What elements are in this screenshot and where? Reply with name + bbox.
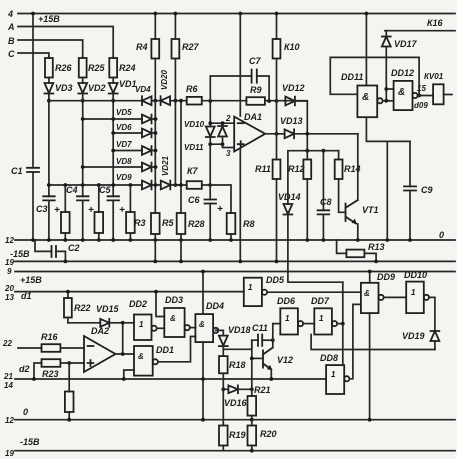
wire DD8 out riser to DD9 [349,304,361,378]
junction -15V R11 [275,260,279,264]
junction caps rail C5 [111,183,115,187]
wire collector column R4-R5 [154,101,156,213]
svg-text:0: 0 [439,230,444,240]
junction 0 rail VT1 emitter [356,238,360,242]
svg-text:VD14: VD14 [278,192,301,202]
wire R27 column to R7 node [174,101,176,185]
junction VD8 row B [81,165,85,169]
svg-text:3: 3 [226,149,231,158]
net K16 line [385,30,455,32]
wire DA1 neg supply [239,149,241,261]
svg-text:R9: R9 [250,85,262,95]
capacitor C6 electrolytic [205,185,217,240]
svg-text:1: 1 [248,283,253,292]
junction 0 rail dots caps area [47,238,233,242]
wire top rail to DD11 [365,14,367,86]
svg-text:C4: C4 [66,185,78,195]
junction -15V rail C2 [64,260,68,264]
diode VD11 [218,123,227,144]
gate DD7 [314,308,337,334]
wire VD19 return to DD7 [311,335,435,350]
svg-text:19: 19 [5,258,14,267]
gate DD12 [394,81,418,110]
resistor R5 [151,213,160,240]
svg-text:+15В: +15В [20,275,42,285]
junction bleed1 top [63,183,67,187]
junction x155 VD7 [154,149,158,153]
resistor R28 [177,101,186,240]
junction d2 rail R23 [32,377,36,381]
junction +15V rail DD4 [201,270,205,274]
junction DA1 out node [275,132,279,136]
svg-text:C6: C6 [188,195,200,205]
svg-text:20: 20 [4,284,14,293]
junction caps rail C3 [47,183,51,187]
diode VD12 [285,97,295,106]
svg-text:R23: R23 [42,369,59,379]
svg-text:2: 2 [225,114,231,123]
junction 0 rail DD9 [368,418,372,422]
wire VD9 caps rail [48,184,178,186]
svg-text:DD12: DD12 [391,68,414,78]
svg-text:DA1: DA1 [244,112,262,122]
wire DA1 plus input row [210,144,234,147]
junction R3 top [129,183,133,187]
diode VD21 [161,181,171,190]
resistor R27 [172,14,180,101]
svg-text:&: & [170,314,176,323]
junction top rail x240 [238,12,242,16]
junction VD17 node [384,99,388,103]
diode VD18 [216,330,228,356]
svg-text:C11: C11 [252,323,268,333]
svg-text:VD16: VD16 [224,398,248,408]
svg-text:VD3: VD3 [55,83,73,93]
op-amp DA2 [84,336,116,372]
svg-text:C5: C5 [99,185,111,195]
junction row x175.4 [174,99,178,103]
capacitor C7 [252,70,270,102]
diode VD19 [429,297,439,349]
svg-text:R11: R11 [255,164,271,174]
diode VD15 [68,319,123,327]
junction -15V R28 [179,260,183,264]
capacitor C8 [318,151,330,240]
junction -15V R5 [153,260,157,264]
wire DD4 bottom to 0 rail [202,342,204,420]
svg-text:DD5: DD5 [266,275,285,285]
wire VD7 row [113,150,142,152]
svg-text:C2: C2 [68,243,80,253]
wire DD5 out to DD9 [267,291,361,293]
svg-text:&: & [364,289,370,298]
junction VD5 row B [81,117,85,121]
svg-text:VD2: VD2 [88,83,106,93]
junction -15V DA1 [238,260,242,264]
svg-text:C7: C7 [249,56,261,66]
svg-text:VD19: VD19 [402,331,425,341]
junction +15V rail DD9 [368,270,372,274]
resistor R19 [219,389,228,450]
diode VD16 [223,385,252,393]
svg-text:К7: К7 [187,166,199,176]
junction DD12 out [417,94,421,98]
resistor R14 [335,151,346,213]
svg-text:C8: C8 [320,197,332,207]
svg-text:R6: R6 [186,84,198,94]
wire R23 to DA2 plus [69,362,84,364]
resistor R4 [151,14,159,101]
wire DD1 lower input [124,370,134,379]
svg-text:DD11: DD11 [341,72,363,82]
svg-text:DD8: DD8 [320,353,338,363]
gate DD10 [406,282,429,314]
svg-text:R12: R12 [288,164,305,174]
junction R7 right node [208,183,212,187]
junction caps rail C4 [81,183,85,187]
gate DD5 [244,278,267,306]
svg-text:R5: R5 [162,218,174,228]
junction base node [250,357,254,361]
wire VD8 row [83,166,142,168]
wire R5 column to -15V [154,240,156,261]
svg-text:19: 19 [5,449,14,458]
svg-text:14: 14 [4,381,13,390]
junction 0 rail R12 [305,238,309,242]
svg-text:R21: R21 [254,385,271,395]
svg-text:DD9: DD9 [377,272,395,282]
wire phase column C down [48,101,50,185]
svg-text:A: A [7,22,15,32]
svg-text:4: 4 [7,9,13,19]
diode VD1 [109,83,118,101]
svg-text:VD21: VD21 [161,155,170,176]
transistor VT1 [346,134,358,240]
svg-text:DD3: DD3 [165,295,183,305]
svg-text:C3: C3 [36,204,48,214]
net -15V rail (pin 19) [15,260,455,262]
wire VD12 to VD13 node [295,101,307,151]
junction top rail x366 [365,12,369,16]
svg-text:C1: C1 [11,166,23,176]
wire d1 to DD3 [156,292,164,317]
resistor R10 [273,14,281,102]
svg-text:1: 1 [139,320,144,329]
wire phase column B down [82,101,84,185]
svg-text:VD10: VD10 [184,120,205,129]
resistor R16 [42,344,85,352]
junction 0 rail C8 [322,238,326,242]
junction 0 rail C6 [208,238,212,242]
svg-text:R16: R16 [41,332,59,342]
junction VD11 top [221,121,225,125]
diode VD20 [161,96,171,105]
svg-text:К10: К10 [284,42,300,52]
junction VD5 row A [111,117,115,121]
svg-text:&: & [138,352,144,361]
junction plus row [208,142,212,146]
wire DD9 out to DD10 [384,296,407,298]
wire feedback top y76 [210,76,251,101]
svg-text:VD17: VD17 [394,39,418,49]
diode VD9 [142,181,152,190]
gate DD3 [164,308,189,337]
junction d1 rail DD3 [154,290,158,294]
junction x386 y89 [384,87,388,91]
transistor VT2 [252,340,273,379]
capacitor C11 [223,335,272,350]
svg-text:VT1: VT1 [362,205,379,215]
junction VD15 DD2 node [121,321,125,325]
wire +15V to DD4 top [202,272,204,315]
svg-text:R26: R26 [55,63,73,73]
wire VD13 to VT1 collector [294,133,358,135]
svg-text:VD18: VD18 [228,325,251,335]
svg-text:DD4: DD4 [206,301,224,311]
wire DA1 minus input row [210,122,234,124]
junction VD13 node [305,132,309,136]
svg-text:VD5: VD5 [116,108,132,117]
svg-text:DD7: DD7 [311,296,330,306]
junction DA2 out [121,352,125,356]
gate DD4 [195,314,218,342]
svg-text:R22: R22 [74,303,91,313]
junction x155 VD8 [154,165,158,169]
svg-text:R13: R13 [368,242,385,252]
wire DD6 input riser [273,324,281,341]
junction 0 rail R17 [67,418,71,422]
wire DD6 out to DD7 [303,323,314,325]
diode VD10 [206,101,215,144]
wire DA1 supply stub [239,14,241,117]
svg-text:DD2: DD2 [129,299,147,309]
junction DD7 riser [341,322,345,326]
svg-text:R3: R3 [134,218,146,228]
wire phase column A down [112,101,114,185]
gate DD11 [357,86,382,118]
junction 0 rail x203 [201,418,205,422]
svg-text:VD4: VD4 [135,85,151,94]
svg-text:R4: R4 [136,42,148,52]
net 0 rail bottom (pin 12) [15,419,455,421]
svg-text:R8: R8 [243,219,255,229]
svg-text:d2: d2 [19,364,30,374]
svg-text:R27: R27 [182,42,200,52]
wire +15V to DD9 top [369,272,371,283]
capacitor C3 electrolytic [43,185,55,240]
svg-text:12: 12 [5,416,14,425]
svg-text:B: B [8,36,15,46]
svg-text:VD20: VD20 [160,69,169,90]
junction R28 top [179,183,183,187]
gate DD1 [134,346,158,376]
gate DD9 [361,283,384,313]
junction 0 rail C9 [408,238,412,242]
junction C11 node [271,338,275,342]
resistor R9 [246,97,265,105]
phase C line [18,53,49,57]
svg-text:+: + [217,204,223,215]
svg-text:R19: R19 [229,430,246,440]
capacitor C4 electrolytic [77,185,89,240]
diode VD5 [142,115,156,124]
resistor R18 [219,356,228,389]
resistor R13 [337,240,377,261]
wire DA1 output [265,133,284,135]
junction minus row [208,121,212,125]
junction VD16 right R21 [250,387,254,391]
resistor R7 [178,181,210,189]
svg-text:21: 21 [3,372,13,381]
resistor R6 [187,97,202,105]
wire connector stub [444,94,452,96]
junction R9 right [267,99,271,103]
resistor R3 [126,185,135,240]
resistor R22 [64,292,72,323]
svg-text:0: 0 [23,407,28,417]
svg-text:DD10: DD10 [404,270,427,280]
svg-text:1: 1 [411,288,416,297]
wire DD3 out to DD4 [190,327,196,329]
connector KV01 box [433,84,444,104]
junction top rail x33 [31,12,35,16]
resistor R8 [210,185,235,240]
diode VD17 [382,31,391,101]
wire left vertical from +15V rail [32,14,34,167]
svg-text:C9: C9 [421,185,433,195]
gate DD2 [134,315,157,341]
resistor R21 [248,389,257,419]
svg-text:DA2: DA2 [91,326,109,336]
junction R23 node [67,361,71,365]
junction VD11 bottom [221,142,225,146]
net +15V lower rail (pin 9) [15,271,455,273]
wire plus node to R7 [209,144,211,185]
resistor bleed 2 [95,185,104,240]
svg-text:КV01: КV01 [424,72,444,81]
gate DD8 [326,365,349,394]
junction d2 rail DD1 [122,377,126,381]
capacitor C1 [27,168,39,240]
junction top rail R4 [153,12,157,16]
capacitor C2 [35,240,65,261]
junction 0 rail x387 [385,238,389,242]
wire DD1 out to DD4 [158,337,196,362]
svg-text:d1: d1 [21,291,32,301]
svg-text:VD13: VD13 [280,116,303,126]
net d2 rail (pins 21,14) [15,378,326,380]
svg-text:12: 12 [5,236,14,245]
net -15V rail bottom (pin 19) [15,450,455,452]
svg-text:1: 1 [331,370,336,379]
svg-text:1: 1 [319,314,324,323]
junction 0 rail R21 [250,418,254,422]
resistor R26 [45,57,53,83]
junction VD7 row A [111,149,115,153]
svg-text:-15В: -15В [20,437,40,447]
svg-text:VD7: VD7 [116,140,132,149]
wire VT2 base riser [251,340,253,389]
junction row x210.3 [208,99,212,103]
svg-text:DD6: DD6 [277,296,296,306]
junction R10 bottom [275,99,279,103]
wire mid rail y150.7 [288,151,339,204]
diode VD2 [78,83,87,101]
svg-text:VD8: VD8 [116,157,132,166]
svg-text:22: 22 [2,339,12,348]
wire VD5 row [83,118,142,120]
diode VD4 [142,96,152,105]
net +15V top rail (pin 4) [18,13,455,15]
junction R7 left node [174,183,178,187]
junction row x155.3 [153,99,157,103]
svg-text:&: & [398,87,405,98]
junction mid rail x323 [322,149,326,153]
junction x155 VD5 [154,117,158,121]
svg-text:C: C [8,49,15,59]
junction -15V R13 [374,260,378,264]
svg-text:R18: R18 [229,360,246,370]
wire DD12 upper input [386,88,393,90]
op-amp DA1 [234,117,265,152]
svg-text:VD11: VD11 [184,143,204,152]
svg-text:V12: V12 [277,355,293,365]
diode VD14 [284,204,343,282]
junction -15V R20 [250,449,254,453]
junction d2 rail x203 [201,377,205,381]
svg-text:+: + [88,205,94,216]
resistor R24 [109,57,117,83]
junction VD6 row A [111,131,115,135]
junction VD16 left [221,387,225,391]
svg-text:К16: К16 [427,18,444,28]
junction bleed2 top [97,183,101,187]
resistor R11 [273,101,281,261]
phase B line [18,40,83,57]
svg-text:9: 9 [7,267,12,276]
junction d2 rail VT2 emitter [269,377,273,381]
svg-text:&: & [362,92,369,103]
svg-text:R20: R20 [260,429,277,439]
net 0 rail (pin 12) [15,239,455,241]
svg-text:1: 1 [285,314,290,323]
svg-text:VD15: VD15 [96,304,120,314]
wire DD7 out joins riser [337,282,343,365]
diode VD13 [285,129,295,138]
pin 22 line [18,347,42,349]
junction VD1 node [111,99,115,103]
svg-text:VD12: VD12 [282,83,305,93]
wire main row y101 [49,100,307,102]
wire latch feedback loop [330,57,419,95]
resistor bleed 1 [61,185,70,240]
svg-text:DD1: DD1 [156,345,174,355]
wire DD11 bottom to C9 branch [366,117,410,240]
junction x155 VD9 [154,183,158,187]
resistor R25 [79,57,87,83]
junction R28 top row [179,99,183,103]
junction top rail R27 [174,12,178,16]
resistor R23 [34,359,69,379]
svg-text:R25: R25 [88,63,106,73]
resistor R20 [248,420,257,451]
junction VD3 node [47,99,51,103]
junction d1 rail R22 [66,290,70,294]
junction mid rail x307 [305,149,309,153]
svg-text:VD9: VD9 [116,173,132,182]
svg-text:VD1: VD1 [119,79,137,89]
junction 0 rail x33 [31,238,35,242]
